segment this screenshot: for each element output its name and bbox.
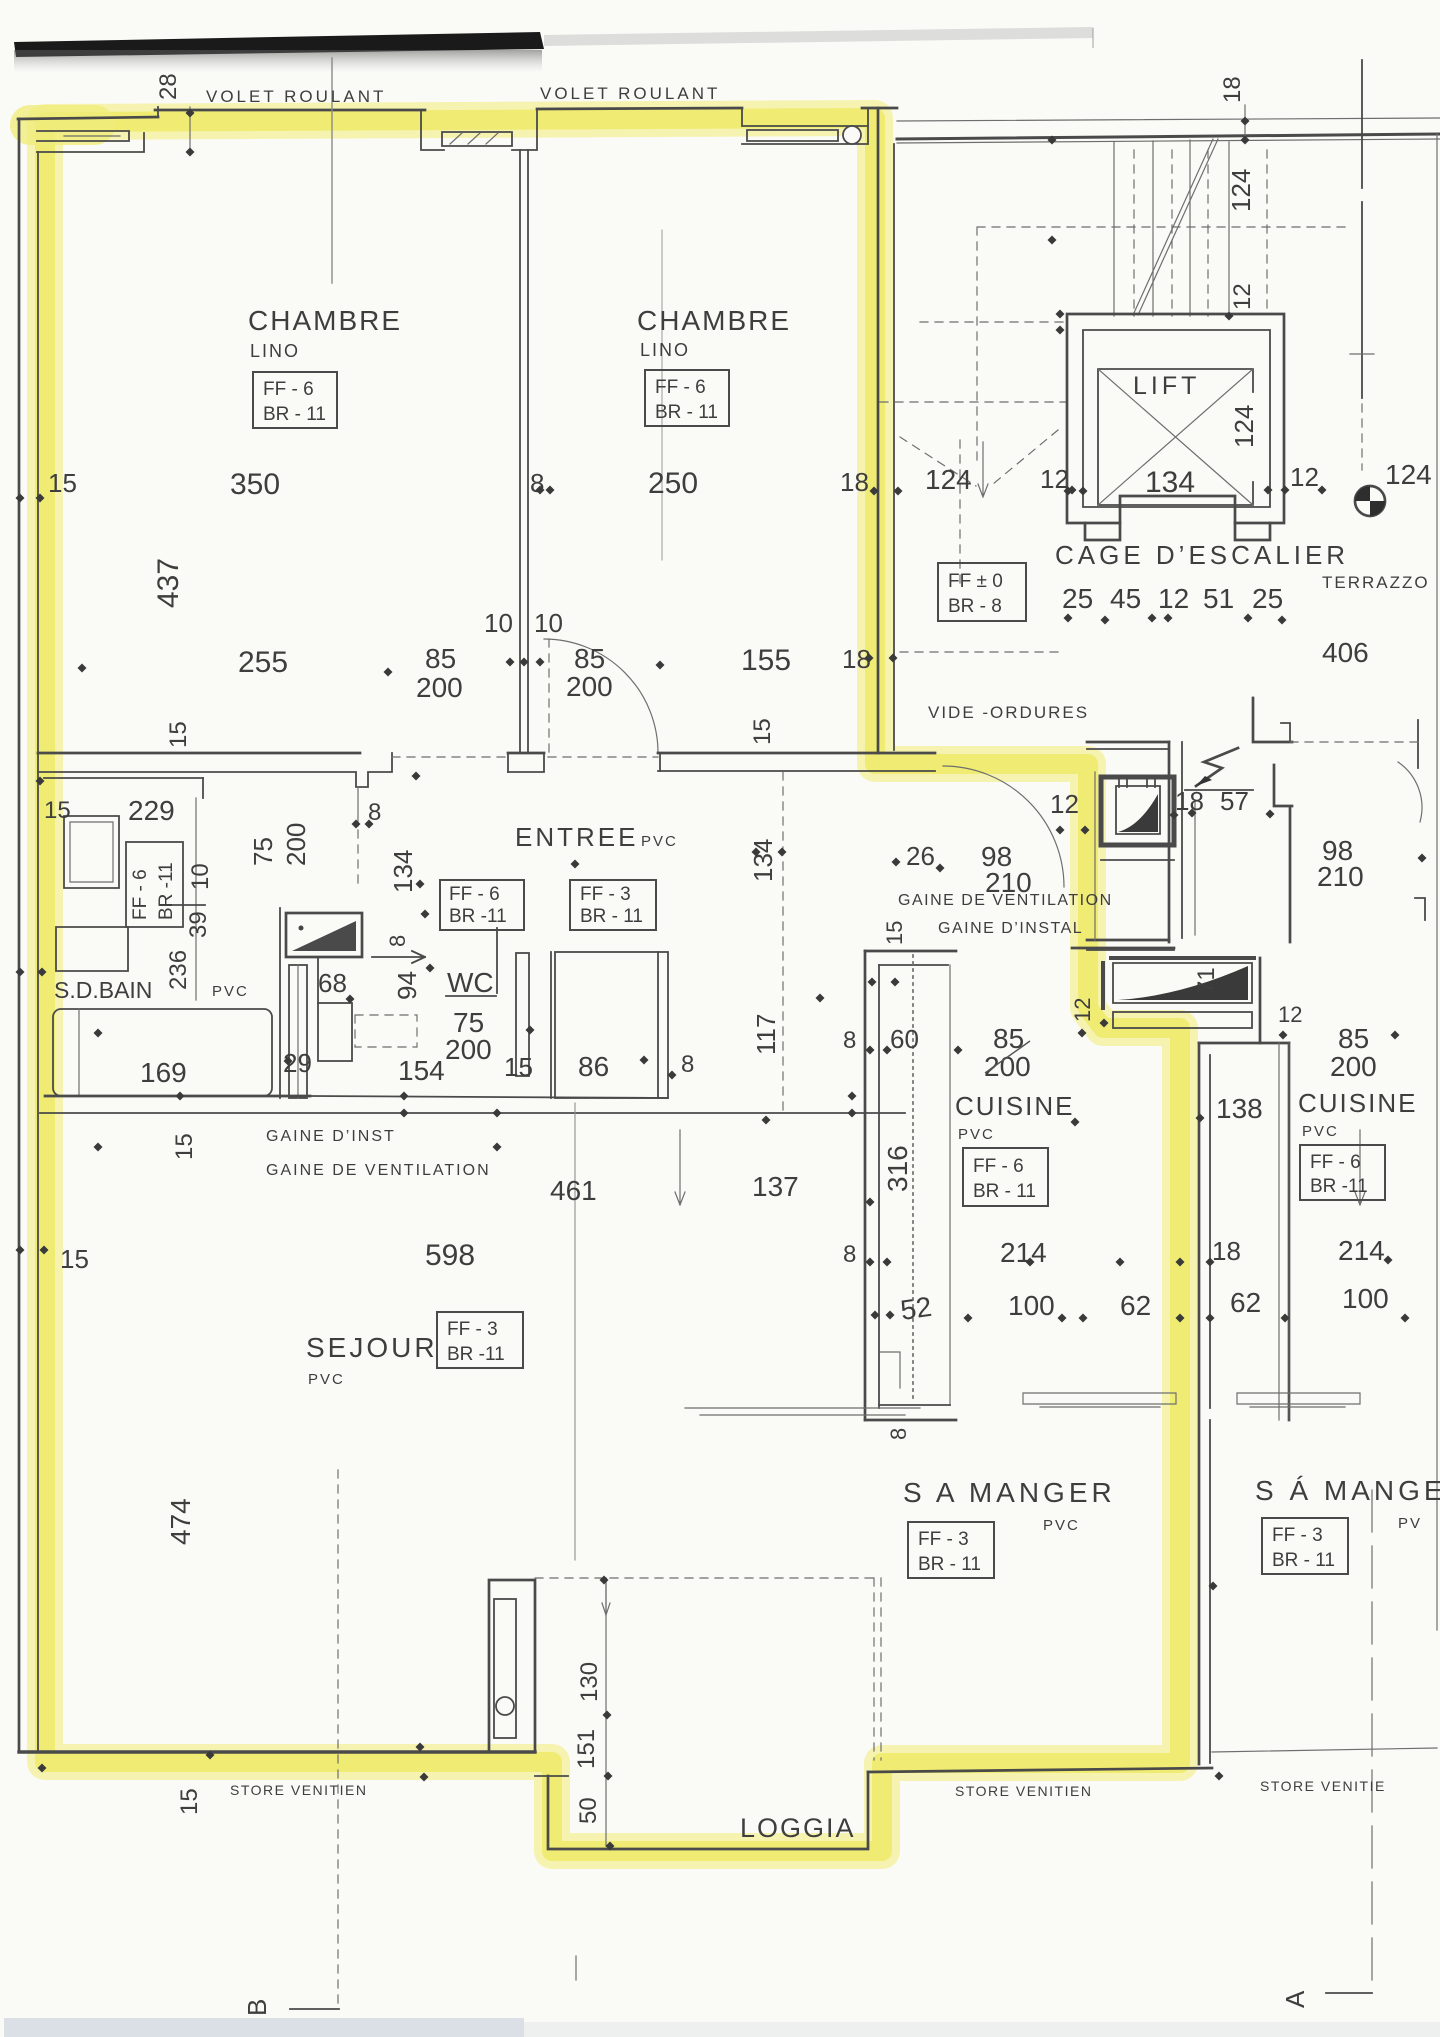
svg-text:PVC: PVC xyxy=(308,1371,345,1388)
svg-text:210: 210 xyxy=(1317,861,1364,892)
svg-text:12: 12 xyxy=(1040,464,1069,494)
svg-text:CHAMBRE: CHAMBRE xyxy=(637,305,791,336)
svg-text:B: B xyxy=(242,1999,272,2016)
svg-text:62: 62 xyxy=(1230,1287,1261,1318)
svg-text:15: 15 xyxy=(44,797,71,824)
svg-text:155: 155 xyxy=(741,644,791,677)
svg-text:SEJOUR: SEJOUR xyxy=(306,1332,438,1363)
svg-text:10: 10 xyxy=(484,608,513,638)
svg-text:BR -11: BR -11 xyxy=(449,906,507,927)
svg-text:LINO: LINO xyxy=(640,340,690,360)
svg-text:BR - 11: BR - 11 xyxy=(918,1554,981,1575)
svg-text:86: 86 xyxy=(578,1051,609,1082)
svg-text:FF - 6: FF - 6 xyxy=(263,379,314,400)
svg-text:FF - 3: FF - 3 xyxy=(447,1319,498,1340)
svg-text:15: 15 xyxy=(504,1052,533,1082)
svg-text:S A MANGER: S A MANGER xyxy=(903,1477,1116,1508)
svg-text:FF - 3: FF - 3 xyxy=(580,884,631,905)
svg-text:STORE VENITIE: STORE VENITIE xyxy=(1260,1778,1386,1794)
svg-text:BR -11: BR -11 xyxy=(156,862,177,920)
svg-text:FF - 6: FF - 6 xyxy=(973,1156,1024,1177)
svg-text:8: 8 xyxy=(385,935,410,947)
svg-text:CHAMBRE: CHAMBRE xyxy=(248,305,402,336)
svg-text:FF - 6: FF - 6 xyxy=(655,377,706,398)
svg-text:BR - 11: BR - 11 xyxy=(973,1181,1036,1202)
svg-text:PVC: PVC xyxy=(1302,1123,1339,1140)
svg-text:BR - 11: BR - 11 xyxy=(1272,1550,1335,1571)
svg-text:S.D.BAIN: S.D.BAIN xyxy=(54,977,152,1003)
svg-text:134: 134 xyxy=(388,850,418,893)
svg-text:124: 124 xyxy=(1226,169,1256,212)
svg-text:214: 214 xyxy=(1338,1235,1385,1266)
svg-text:350: 350 xyxy=(230,468,280,501)
svg-text:GAINE DE VENTILATION: GAINE DE VENTILATION xyxy=(266,1162,491,1179)
svg-text:12: 12 xyxy=(1229,283,1256,310)
svg-text:138: 138 xyxy=(1216,1093,1263,1124)
svg-text:18: 18 xyxy=(1212,1236,1241,1266)
svg-text:229: 229 xyxy=(128,795,175,826)
svg-text:68: 68 xyxy=(318,968,347,998)
svg-text:75: 75 xyxy=(248,837,278,866)
svg-text:15: 15 xyxy=(165,721,192,748)
svg-text:406: 406 xyxy=(1322,637,1369,668)
svg-text:LOGGIA: LOGGIA xyxy=(740,1813,856,1843)
svg-text:60: 60 xyxy=(890,1024,919,1054)
svg-text:BR -11: BR -11 xyxy=(1310,1176,1368,1197)
svg-text:598: 598 xyxy=(425,1239,475,1272)
svg-text:VOLET ROULANT: VOLET ROULANT xyxy=(540,84,720,103)
svg-text:200: 200 xyxy=(1330,1051,1377,1082)
svg-text:39: 39 xyxy=(185,911,212,938)
svg-text:A: A xyxy=(1280,1990,1310,2008)
svg-text:25: 25 xyxy=(1252,583,1283,614)
svg-text:169: 169 xyxy=(140,1057,187,1088)
svg-text:461: 461 xyxy=(550,1175,597,1206)
svg-text:12: 12 xyxy=(1278,1002,1302,1027)
svg-text:12: 12 xyxy=(1158,583,1189,614)
svg-text:316: 316 xyxy=(882,1145,913,1192)
svg-text:124: 124 xyxy=(1229,405,1259,448)
svg-text:PVC: PVC xyxy=(958,1126,995,1143)
svg-text:CAGE D’ESCALIER: CAGE D’ESCALIER xyxy=(1055,540,1349,570)
svg-text:VOLET ROULANT: VOLET ROULANT xyxy=(206,87,386,106)
svg-text:10: 10 xyxy=(187,863,214,890)
svg-text:137: 137 xyxy=(752,1171,799,1202)
svg-text:15: 15 xyxy=(171,1133,198,1160)
svg-text:CUISINE: CUISINE xyxy=(1298,1088,1417,1118)
svg-text:26: 26 xyxy=(906,841,935,871)
svg-text:12: 12 xyxy=(1290,462,1319,492)
svg-text:WC: WC xyxy=(447,967,494,998)
svg-text:134: 134 xyxy=(1145,466,1195,499)
svg-text:GAINE D’INSTAL: GAINE D’INSTAL xyxy=(938,920,1083,937)
svg-text:117: 117 xyxy=(751,1014,781,1055)
svg-text:VIDE -ORDURES: VIDE -ORDURES xyxy=(928,703,1089,722)
svg-text:124: 124 xyxy=(925,464,972,495)
svg-text:151: 151 xyxy=(573,1729,600,1769)
svg-text:85: 85 xyxy=(1338,1023,1369,1054)
svg-text:BR - 11: BR - 11 xyxy=(263,404,326,425)
svg-text:15: 15 xyxy=(749,718,776,745)
svg-text:ENTREE: ENTREE xyxy=(515,822,638,852)
svg-text:94: 94 xyxy=(392,971,422,1000)
svg-text:100: 100 xyxy=(1342,1283,1389,1314)
svg-text:PVC: PVC xyxy=(641,833,678,850)
svg-text:8: 8 xyxy=(530,468,544,498)
svg-text:8: 8 xyxy=(681,1051,694,1078)
svg-text:134: 134 xyxy=(748,839,778,882)
svg-text:BR -11: BR -11 xyxy=(447,1344,505,1365)
svg-text:S Á MANGE: S Á MANGE xyxy=(1255,1475,1440,1506)
svg-text:28: 28 xyxy=(155,73,182,100)
svg-text:15: 15 xyxy=(48,468,77,498)
svg-text:FF - 3: FF - 3 xyxy=(1272,1525,1323,1546)
svg-text:12: 12 xyxy=(1050,789,1079,819)
svg-text:200: 200 xyxy=(984,1051,1031,1082)
svg-text:130: 130 xyxy=(576,1662,603,1702)
svg-text:FF - 6: FF - 6 xyxy=(1310,1152,1361,1173)
svg-text:57: 57 xyxy=(1220,786,1249,816)
svg-text:FF ± 0: FF ± 0 xyxy=(948,571,1003,592)
svg-text:PVC: PVC xyxy=(212,983,249,1000)
svg-text:200: 200 xyxy=(281,823,311,866)
svg-text:LINO: LINO xyxy=(250,341,300,361)
svg-text:FF - 6: FF - 6 xyxy=(449,884,500,905)
svg-text:214: 214 xyxy=(1000,1237,1047,1268)
svg-text:FF - 6: FF - 6 xyxy=(130,869,151,920)
svg-text:437: 437 xyxy=(152,558,185,608)
svg-text:8: 8 xyxy=(843,1241,856,1268)
svg-text:15: 15 xyxy=(176,1788,203,1815)
svg-text:236: 236 xyxy=(165,950,192,990)
svg-text:85: 85 xyxy=(425,643,456,674)
svg-text:200: 200 xyxy=(566,671,613,702)
svg-text:124: 124 xyxy=(1385,459,1432,490)
svg-text:GAINE D’INST: GAINE D’INST xyxy=(266,1128,396,1145)
svg-text:71: 71 xyxy=(1193,967,1220,994)
svg-text:GAINE DE VENTILATION: GAINE DE VENTILATION xyxy=(898,892,1113,909)
svg-text:200: 200 xyxy=(445,1034,492,1065)
svg-text:250: 250 xyxy=(648,467,698,500)
svg-text:154: 154 xyxy=(398,1055,445,1086)
svg-text:BR - 11: BR - 11 xyxy=(580,906,643,927)
svg-text:51: 51 xyxy=(1203,583,1234,614)
svg-text:474: 474 xyxy=(165,1498,196,1545)
svg-text:50: 50 xyxy=(575,1797,602,1824)
svg-text:45: 45 xyxy=(1110,583,1141,614)
svg-text:10: 10 xyxy=(534,608,563,638)
svg-text:PVC: PVC xyxy=(1043,1517,1080,1534)
svg-text:18: 18 xyxy=(1219,76,1246,103)
svg-text:8: 8 xyxy=(843,1027,856,1054)
svg-text:18: 18 xyxy=(840,467,869,497)
svg-text:15: 15 xyxy=(60,1244,89,1274)
svg-text:TERRAZZO: TERRAZZO xyxy=(1322,573,1430,592)
svg-text:62: 62 xyxy=(1120,1290,1151,1321)
svg-text:12: 12 xyxy=(1070,998,1095,1022)
svg-text:BR - 8: BR - 8 xyxy=(948,596,1002,617)
svg-text:52: 52 xyxy=(898,1291,933,1326)
svg-text:8: 8 xyxy=(886,1428,911,1440)
svg-text:BR - 11: BR - 11 xyxy=(655,402,718,423)
svg-text:PV: PV xyxy=(1398,1515,1422,1532)
svg-text:85: 85 xyxy=(574,643,605,674)
svg-text:FF - 3: FF - 3 xyxy=(918,1529,969,1550)
svg-text:LIFT: LIFT xyxy=(1133,372,1200,400)
svg-text:100: 100 xyxy=(1008,1290,1055,1321)
svg-text:25: 25 xyxy=(1062,583,1093,614)
svg-text:85: 85 xyxy=(993,1023,1024,1054)
svg-text:STORE VENITIEN: STORE VENITIEN xyxy=(230,1782,367,1798)
svg-text:255: 255 xyxy=(238,646,288,679)
svg-text:15: 15 xyxy=(882,921,907,945)
svg-text:STORE VENITIEN: STORE VENITIEN xyxy=(955,1783,1092,1799)
svg-text:CUISINE: CUISINE xyxy=(955,1091,1074,1121)
svg-text:200: 200 xyxy=(416,672,463,703)
